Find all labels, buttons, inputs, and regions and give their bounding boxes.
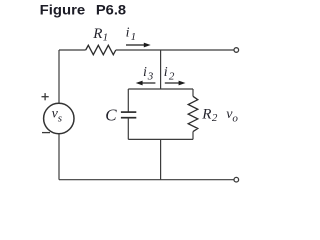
current arrow i1 [126,43,151,48]
svg-text:s: s [58,112,62,124]
wire: capacitor branch upper lead [127,89,129,112]
label R2 [201,106,218,124]
svg-text:i: i [126,26,130,41]
minus polarity mark of vs [42,132,50,134]
wire: left rail upper [58,50,60,103]
svg-text:3: 3 [147,70,154,82]
svg-text:C: C [105,106,117,125]
wire: middle stem upper [160,50,162,89]
svg-text:i: i [164,65,168,80]
wire: R2 branch upper lead [192,89,194,96]
wire: capacitor branch lower lead [127,118,129,140]
label R1 [92,26,108,44]
wire: parallel box bottom rail [128,138,193,140]
wire: top rail left of R1 [59,49,86,51]
svg-text:R: R [201,106,211,122]
current arrow i2 (pointing right) [165,81,186,86]
label vs [52,107,62,125]
terminal node: top right open circle [234,48,239,53]
wire: R2 branch lower lead [192,132,194,140]
svg-text:i: i [143,65,147,80]
resistor R2 (vertical zigzag) [188,96,198,131]
current arrow i3 (pointing left) [136,81,156,86]
figure title [40,2,127,18]
label vo [226,107,238,125]
terminal node: bottom right open circle [234,177,239,182]
svg-text:R: R [92,26,102,42]
plus polarity mark of vs [42,93,49,100]
current label i1 [126,26,137,44]
current label i2 [164,65,175,82]
svg-text:2: 2 [212,112,218,124]
wire: middle stem lower [160,139,162,179]
svg-text:1: 1 [103,32,109,44]
svg-text:P6.8: P6.8 [96,2,126,18]
wire: parallel box top rail [128,88,193,90]
current label i3 [143,65,154,82]
svg-text:1: 1 [131,31,137,43]
svg-text:2: 2 [169,70,175,82]
svg-text:Figure: Figure [40,2,86,18]
resistor R1 (zigzag) [86,45,116,54]
voltage source vs (circle) [44,103,74,133]
wire: top rail right of R1 [116,49,234,51]
wire: left rail lower [58,134,60,180]
svg-text:o: o [232,113,238,125]
wire: bottom rail [59,179,234,181]
capacitor C plates [121,112,136,118]
